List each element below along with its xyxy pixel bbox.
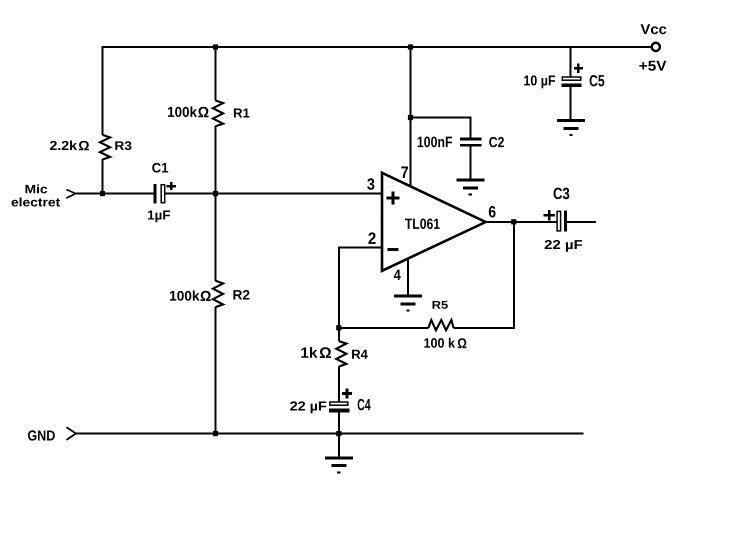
ohm symbol R3 xyxy=(79,141,89,150)
resistor R2 xyxy=(213,281,223,307)
wire R4 to C4 xyxy=(338,366,340,401)
Vcc terminal circle xyxy=(652,43,660,51)
capacitor C3 solid plate xyxy=(564,211,567,232)
ohm symbol R1 xyxy=(198,107,208,118)
junction output / feedback xyxy=(511,219,516,224)
pin number 4 xyxy=(394,270,401,280)
wire R4 branch xyxy=(338,328,340,341)
wire signal line right (C1 to pin 3) xyxy=(166,193,382,195)
designator C2 xyxy=(489,137,504,147)
pin number 6 xyxy=(489,206,496,217)
resistor R1 xyxy=(213,101,223,127)
wire pin 2 feedback vertical xyxy=(338,247,340,328)
capacitor C4 plus mark xyxy=(342,388,352,398)
label Vcc xyxy=(640,24,666,34)
op-amp minus input mark xyxy=(388,248,399,251)
wire Vcc branch to C5 xyxy=(570,47,572,76)
capacitor C4 solid plate xyxy=(329,409,350,413)
value label 100k (R1) xyxy=(168,106,197,117)
designator C5 xyxy=(590,75,605,86)
wire signal line left (mic to C1) xyxy=(76,193,154,195)
capacitor C3 plus mark xyxy=(544,210,555,221)
GND rail wire xyxy=(76,433,584,435)
junction pin7 branch / top rail xyxy=(408,44,413,49)
capacitor C2 plate 1 xyxy=(460,138,482,141)
ground symbol below C2 xyxy=(456,179,484,196)
wire R2 branch xyxy=(215,194,217,281)
wire C4 to GND rail xyxy=(338,412,340,433)
pin number 2 xyxy=(368,232,375,244)
value label 22µF (C4) xyxy=(290,401,326,413)
value label 1k xyxy=(301,347,317,358)
wire feedback vertical from output xyxy=(513,221,515,329)
capacitor C5 plus mark xyxy=(574,63,583,73)
capacitor C5 solid plate xyxy=(562,83,582,87)
designator R5 xyxy=(432,301,447,309)
wire C2 to ground xyxy=(469,147,471,179)
GND terminal arrow xyxy=(67,427,77,440)
wire pin 4 xyxy=(407,259,409,295)
junction mic input / R3 xyxy=(100,191,105,196)
wire op-amp output to C3 xyxy=(486,221,557,223)
wire pin 7 branch xyxy=(410,46,412,187)
capacitor C1 solid plate xyxy=(154,184,157,203)
wire C2 branch horizontal xyxy=(410,117,472,119)
ground symbol below C4 at GND rail xyxy=(325,457,353,474)
ohm symbol R4 xyxy=(320,347,331,358)
pin number 3 xyxy=(367,178,374,190)
label "electret" xyxy=(12,197,61,206)
designator R3 xyxy=(115,141,131,150)
resistor R3 xyxy=(100,135,110,160)
junction R2 / GND rail xyxy=(213,431,218,436)
ground symbol below pin 4 xyxy=(394,295,422,312)
ohm symbol R2 xyxy=(201,291,211,301)
wire C4 ground stem xyxy=(338,435,340,457)
designator C3 xyxy=(553,188,569,200)
wire C5 to ground xyxy=(570,87,572,119)
label "GND" xyxy=(28,430,55,440)
wire R5 horizontal right xyxy=(454,327,515,329)
top supply rail wire xyxy=(102,46,651,48)
junction C4 / GND rail xyxy=(336,431,341,436)
resistor R5 xyxy=(428,320,453,330)
wire R1 to signal line xyxy=(215,126,217,194)
junction R1 branch / top rail xyxy=(213,44,218,49)
junction pin7 branch / C2 branch xyxy=(408,115,413,120)
capacitor C3 hollow plate xyxy=(557,211,561,231)
mic input terminal arrow xyxy=(66,190,75,199)
designator R1 xyxy=(234,108,250,117)
value label 2.2k xyxy=(50,140,77,150)
capacitor C1 plus mark xyxy=(166,182,176,190)
wire pin 2 horizontal xyxy=(338,247,382,249)
pin number 7 xyxy=(401,166,408,177)
wire C2 branch vertical xyxy=(469,117,471,139)
value label 100k (R2) xyxy=(170,290,200,300)
wire R1 branch upper xyxy=(215,46,217,101)
resistor R4 xyxy=(336,341,346,366)
wire R3 branch upper xyxy=(102,46,104,135)
value label 1µF xyxy=(148,210,170,222)
capacitor C2 plate 2 xyxy=(460,144,482,147)
op-amp plus input mark xyxy=(386,191,399,204)
designator R4 xyxy=(352,350,368,359)
op-amp U1 TL061 triangle xyxy=(382,173,486,271)
designator C4 xyxy=(358,399,371,410)
designator C1 xyxy=(152,163,168,173)
capacitor C4 hollow plate xyxy=(330,402,348,405)
ground symbol below C5 xyxy=(557,119,585,136)
wire R3 branch lower xyxy=(102,159,104,194)
designator R2 xyxy=(233,290,249,299)
wire R2 to GND rail xyxy=(215,307,217,435)
label "Mic" xyxy=(26,184,48,193)
capacitor C1 hollow plate xyxy=(161,185,165,203)
wire R5 horizontal left xyxy=(338,327,429,329)
wire C3 output stub xyxy=(567,221,596,223)
value label 100nF xyxy=(418,137,453,148)
junction signal / R1 R2 xyxy=(213,191,218,196)
label TL061 xyxy=(405,219,440,229)
capacitor C5 hollow plate xyxy=(562,77,581,80)
label +5V xyxy=(639,61,666,71)
value label 10µF xyxy=(524,75,555,88)
value label 22µF (C3) xyxy=(545,240,583,252)
junction feedback node / R4 R5 xyxy=(336,325,341,330)
ohm symbol R5 xyxy=(458,338,467,348)
value label 100 k (R5) xyxy=(424,338,455,348)
